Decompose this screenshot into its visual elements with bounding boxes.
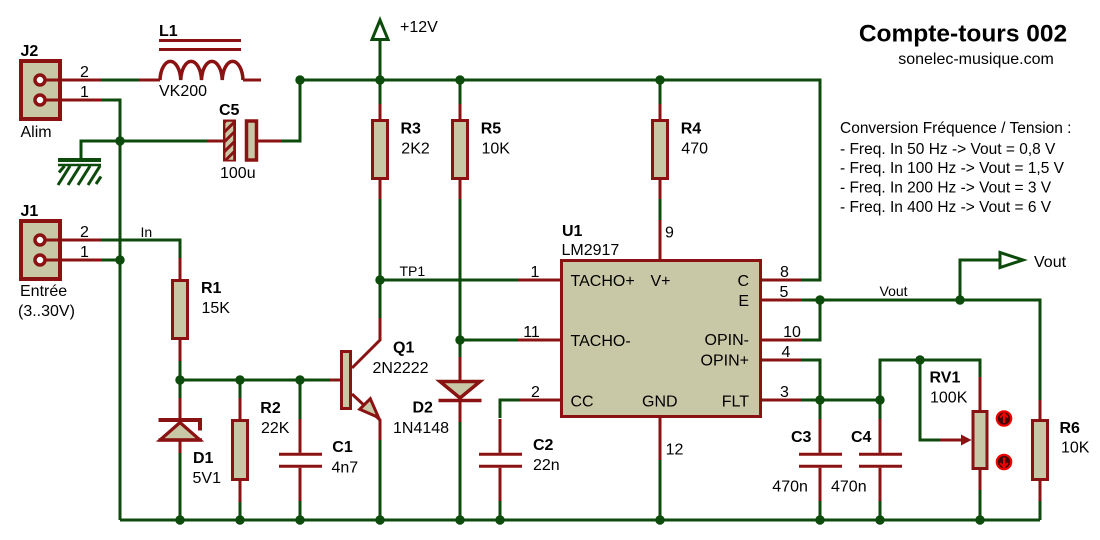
wire R2 top bbox=[239, 380, 242, 398]
pin U1.12 bbox=[659, 418, 662, 460]
svg-text:J2: J2 bbox=[21, 43, 39, 60]
svg-text:10K: 10K bbox=[482, 141, 511, 158]
diode D2 bbox=[440, 382, 480, 399]
svg-text:2: 2 bbox=[80, 64, 89, 81]
svg-text:OPIN-: OPIN- bbox=[705, 332, 749, 349]
node gnd/RV1 bbox=[975, 515, 984, 524]
svg-text:3: 3 bbox=[780, 384, 789, 401]
wire +12V top rail bbox=[300, 80, 820, 280]
svg-text:2: 2 bbox=[531, 384, 540, 401]
ground bbox=[58, 160, 101, 185]
pin C3 top bbox=[819, 419, 822, 453]
pin U1.11 bbox=[518, 339, 560, 342]
wire R4 top bbox=[659, 80, 662, 104]
capacitor C4 bbox=[859, 454, 902, 466]
wire C3 top bbox=[819, 400, 822, 419]
pin C5 right bbox=[258, 140, 281, 143]
pin L1 left bbox=[139, 79, 160, 82]
pin C2 top bbox=[499, 419, 502, 453]
node gnd/R2 bbox=[235, 515, 244, 524]
diode D1 zener bbox=[159, 420, 203, 431]
node base/R1 bbox=[175, 375, 184, 384]
node J1.1/left rail bbox=[115, 255, 124, 264]
svg-text:C1: C1 bbox=[332, 439, 353, 456]
pin C1 bottom bbox=[299, 468, 302, 501]
svg-text:1: 1 bbox=[80, 244, 89, 261]
pin R3 top bbox=[379, 104, 382, 120]
wire base row bbox=[180, 379, 330, 382]
pin R6 bottom bbox=[1039, 481, 1042, 501]
wire C4 top bbox=[879, 400, 882, 419]
node C5/ground bbox=[115, 136, 124, 145]
wire D2 bottom bbox=[459, 422, 462, 520]
wire J1 pin1 to left rail bbox=[101, 259, 120, 262]
potentiometer RV1 bbox=[973, 412, 987, 469]
node Vout/port bbox=[955, 295, 964, 304]
pin R4 top bbox=[659, 104, 662, 120]
resistor R3 bbox=[373, 121, 388, 179]
wire J2 pin1 left rail down bbox=[101, 100, 120, 520]
op-amp U1 LM2917 body bbox=[562, 261, 761, 417]
wire C3 bottom bbox=[819, 501, 822, 520]
pin RV1 top bbox=[979, 377, 982, 411]
pin R4 bottom bbox=[659, 179, 662, 199]
svg-text:R3: R3 bbox=[401, 121, 422, 138]
svg-text:22n: 22n bbox=[533, 457, 560, 474]
transistor Q1 bbox=[342, 352, 351, 409]
capacitor C1 bbox=[279, 454, 322, 466]
wire RV1 wiper bbox=[920, 360, 940, 440]
svg-text:C: C bbox=[737, 273, 749, 290]
svg-text:100u: 100u bbox=[220, 165, 256, 182]
svg-text:LM2917: LM2917 bbox=[562, 242, 620, 259]
wire FLT net up to RV1 top bbox=[880, 360, 980, 400]
pin Q1 base bbox=[330, 379, 341, 382]
wire ground to C5 left bbox=[81, 141, 207, 158]
svg-text:- Freq. In 400 Hz -> Vout = 6: - Freq. In 400 Hz -> Vout = 6 V bbox=[840, 199, 1052, 216]
svg-text:1: 1 bbox=[80, 84, 89, 101]
svg-text:R1: R1 bbox=[201, 280, 222, 297]
svg-text:22K: 22K bbox=[261, 420, 290, 437]
note conversion table bbox=[840, 120, 1072, 216]
pin D1 bottom bbox=[179, 441, 182, 453]
pin Q1 emitter bbox=[352, 394, 380, 440]
pin U1.1 bbox=[518, 279, 560, 282]
svg-text:VK200: VK200 bbox=[159, 83, 207, 100]
svg-text:1N4148: 1N4148 bbox=[393, 420, 449, 437]
svg-text:Vout: Vout bbox=[1034, 254, 1067, 271]
wire D1 bottom bbox=[179, 453, 182, 520]
wire R4 bottom to pin9 bbox=[659, 199, 662, 220]
svg-text:Q1: Q1 bbox=[393, 340, 414, 357]
svg-text:470n: 470n bbox=[831, 479, 867, 496]
node gnd/C2 bbox=[495, 515, 504, 524]
svg-text:U1: U1 bbox=[562, 223, 583, 240]
node base/R2 bbox=[235, 375, 244, 384]
svg-text:GND: GND bbox=[642, 394, 678, 411]
node rail/R5 bbox=[455, 75, 464, 84]
svg-text:E: E bbox=[738, 293, 749, 310]
capacitor C5 polarized bbox=[223, 120, 236, 162]
wire pin4 down to FLT net bbox=[801, 360, 820, 400]
svg-text:Entrée: Entrée bbox=[20, 283, 67, 300]
wire ground bottom rail bbox=[120, 519, 1040, 522]
svg-text:1: 1 bbox=[531, 264, 540, 281]
pin D2 bottom bbox=[459, 402, 462, 422]
connector J1 bbox=[21, 221, 60, 279]
node rail/L1-C5 bbox=[295, 75, 304, 84]
svg-text:OPIN+: OPIN+ bbox=[701, 353, 749, 370]
svg-text:4: 4 bbox=[782, 344, 791, 361]
svg-text:Vout: Vout bbox=[880, 283, 908, 299]
svg-text:L1: L1 bbox=[159, 23, 178, 40]
pin D2 top bbox=[459, 357, 462, 381]
svg-text:TP1: TP1 bbox=[400, 263, 426, 279]
svg-text:4n7: 4n7 bbox=[332, 460, 359, 477]
pin R5 top bbox=[459, 104, 462, 120]
pin R6 top bbox=[1039, 400, 1042, 420]
pin C3 bottom bbox=[819, 468, 822, 501]
pin R5 bottom bbox=[459, 179, 462, 199]
pin U1.8 bbox=[762, 279, 801, 282]
node FLT/C3 bbox=[815, 395, 824, 404]
wire R3 bottom to TP1 collector bbox=[379, 199, 382, 318]
pin Q1 collector bbox=[352, 318, 380, 368]
wire node to U1 pin11 bbox=[460, 339, 518, 342]
resistor R2 bbox=[233, 421, 248, 480]
node gnd/Q1 bbox=[375, 515, 384, 524]
node RV1 wiper/top bbox=[915, 355, 924, 364]
svg-text:11: 11 bbox=[523, 324, 540, 341]
wire R2 bottom bbox=[239, 502, 242, 520]
svg-text:100K: 100K bbox=[930, 390, 968, 407]
wire R5 bottom to node bbox=[459, 199, 462, 340]
node gnd/C4 bbox=[875, 515, 884, 524]
svg-text:+12V: +12V bbox=[400, 19, 438, 36]
node rail/R4 bbox=[655, 75, 664, 84]
svg-text:Conversion Fréquence / Tension: Conversion Fréquence / Tension : bbox=[840, 120, 1072, 137]
capacitor C3 bbox=[799, 454, 842, 466]
svg-text:TACHO-: TACHO- bbox=[571, 333, 631, 350]
wire D2 top bbox=[459, 340, 462, 357]
node gnd/D1 bbox=[175, 515, 184, 524]
pin C5 left bbox=[207, 140, 223, 143]
resistor R6 bbox=[1033, 421, 1048, 480]
wire R6 bottom bbox=[1039, 501, 1042, 520]
pin J2.2 bbox=[46, 79, 101, 82]
svg-text:C5: C5 bbox=[219, 102, 240, 119]
pin C4 bottom bbox=[879, 468, 882, 501]
wire RV1 bottom bbox=[979, 490, 982, 520]
wire pin3 FLT row bbox=[801, 399, 880, 402]
capacitor C2 bbox=[479, 454, 522, 466]
wire Q1 emitter down bbox=[379, 440, 382, 520]
resistor R1 bbox=[173, 281, 188, 339]
svg-text:10K: 10K bbox=[1061, 440, 1090, 457]
pin L1 right bbox=[243, 79, 261, 82]
pin R1 bottom bbox=[179, 340, 182, 361]
resistor R5 bbox=[453, 121, 468, 179]
svg-text:CC: CC bbox=[571, 394, 594, 411]
svg-text:FLT: FLT bbox=[722, 394, 749, 411]
wire D1 top bbox=[179, 380, 182, 398]
node gnd/C1 bbox=[295, 515, 304, 524]
svg-text:Compte-tours 002: Compte-tours 002 bbox=[859, 21, 1067, 48]
svg-text:R2: R2 bbox=[260, 400, 281, 417]
wire C1 top bbox=[299, 380, 302, 419]
node gnd/C3 bbox=[815, 515, 824, 524]
svg-text:TACHO+: TACHO+ bbox=[571, 273, 635, 290]
wire C1 bottom bbox=[299, 501, 302, 520]
pin U1.9 bbox=[659, 220, 662, 259]
svg-text:Alim: Alim bbox=[21, 124, 52, 141]
wire C5 right up to rail bbox=[281, 80, 300, 141]
svg-text:470: 470 bbox=[681, 141, 708, 158]
svg-text:R6: R6 bbox=[1060, 420, 1081, 437]
wire R5 top bbox=[459, 80, 462, 104]
node gnd/U1.12 bbox=[655, 515, 664, 524]
wire pin10 up to Vout net bbox=[801, 300, 820, 340]
svg-text:8: 8 bbox=[780, 264, 789, 281]
pin C2 bottom bbox=[499, 468, 502, 501]
svg-text:D2: D2 bbox=[413, 400, 434, 417]
wire C4 bottom bbox=[879, 501, 882, 520]
svg-text:V+: V+ bbox=[651, 273, 671, 290]
node rail/+12V-R3 bbox=[375, 75, 384, 84]
svg-text:D1: D1 bbox=[193, 450, 214, 467]
pin U1.10 bbox=[762, 339, 801, 342]
pin U1.2 bbox=[520, 399, 560, 402]
pin RV1 wiper arrow bbox=[940, 439, 963, 442]
wire U1 pin12 to ground rail bbox=[659, 460, 662, 520]
resistor R4 bbox=[653, 121, 668, 179]
RV1 adjust down indicator bbox=[997, 455, 1011, 469]
svg-text:RV1: RV1 bbox=[930, 370, 961, 387]
pin C4 top bbox=[879, 419, 882, 453]
wire C2 bottom bbox=[499, 501, 502, 520]
svg-text:12: 12 bbox=[666, 442, 684, 459]
pin J1.2 bbox=[46, 239, 101, 242]
svg-text:10: 10 bbox=[783, 324, 801, 341]
pin J1.1 bbox=[46, 259, 101, 262]
pin R3 bottom bbox=[379, 179, 382, 199]
svg-text:J1: J1 bbox=[21, 203, 39, 220]
pin U1.4 bbox=[762, 359, 801, 362]
wire J2 pin2 to L1 bbox=[101, 79, 139, 82]
wire In net J1 pin2 to R1 bbox=[101, 240, 180, 258]
svg-text:9: 9 bbox=[665, 225, 674, 242]
node Vout/pin10 bbox=[815, 295, 824, 304]
node R5/D2/pin11 bbox=[455, 335, 464, 344]
svg-text:5: 5 bbox=[780, 284, 789, 301]
svg-text:- Freq. In 100 Hz -> Vout = 1,: - Freq. In 100 Hz -> Vout = 1,5 V bbox=[840, 160, 1065, 177]
pin R2 top bbox=[239, 398, 242, 420]
RV1 adjust up indicator bbox=[997, 411, 1011, 425]
connector J2 bbox=[21, 61, 60, 119]
pin R2 bottom bbox=[239, 481, 242, 502]
wire Vout net pin5 to R6 bbox=[801, 300, 1040, 400]
wire Vout port bbox=[960, 260, 1000, 300]
pin RV1 bottom bbox=[979, 470, 982, 490]
svg-text:C2: C2 bbox=[533, 437, 554, 454]
svg-text:5V1: 5V1 bbox=[193, 470, 222, 487]
svg-text:R5: R5 bbox=[481, 121, 502, 138]
svg-text:In: In bbox=[141, 224, 153, 240]
power +12V bbox=[372, 20, 388, 40]
pin U1.5 bbox=[762, 299, 801, 302]
wire R3 top bbox=[379, 80, 382, 104]
svg-text:- Freq. In 50 Hz -> Vout = 0,8: - Freq. In 50 Hz -> Vout = 0,8 V bbox=[840, 141, 1056, 158]
svg-text:15K: 15K bbox=[202, 300, 231, 317]
svg-text:- Freq. In 200 Hz -> Vout = 3: - Freq. In 200 Hz -> Vout = 3 V bbox=[840, 180, 1052, 197]
svg-text:470n: 470n bbox=[772, 479, 808, 496]
svg-text:C3: C3 bbox=[791, 429, 812, 446]
svg-text:2N2222: 2N2222 bbox=[373, 360, 429, 377]
svg-text:R4: R4 bbox=[681, 121, 702, 138]
wire TP1 to U1 pin1 bbox=[380, 279, 518, 282]
port Vout bbox=[1000, 253, 1023, 268]
inductor L1 bbox=[159, 41, 241, 50]
pin D1 top bbox=[179, 398, 182, 419]
node FLT/C4 bbox=[875, 395, 884, 404]
svg-text:2K2: 2K2 bbox=[401, 141, 430, 158]
pin U1.3 bbox=[762, 399, 801, 402]
pin J2.1 bbox=[46, 99, 101, 102]
node gnd/D2 bbox=[455, 515, 464, 524]
svg-text:2: 2 bbox=[80, 224, 89, 241]
wire R1 bottom bbox=[179, 361, 182, 380]
pin C1 top bbox=[299, 419, 302, 453]
node TP1 bbox=[375, 275, 384, 284]
pin R1 top bbox=[179, 258, 182, 280]
node base/C1 bbox=[295, 375, 304, 384]
wire U1 pin2 to C2 bbox=[500, 400, 520, 418]
svg-text:sonelec-musique.com: sonelec-musique.com bbox=[898, 51, 1054, 68]
svg-text:(3..30V): (3..30V) bbox=[18, 303, 75, 320]
svg-text:C4: C4 bbox=[851, 429, 872, 446]
